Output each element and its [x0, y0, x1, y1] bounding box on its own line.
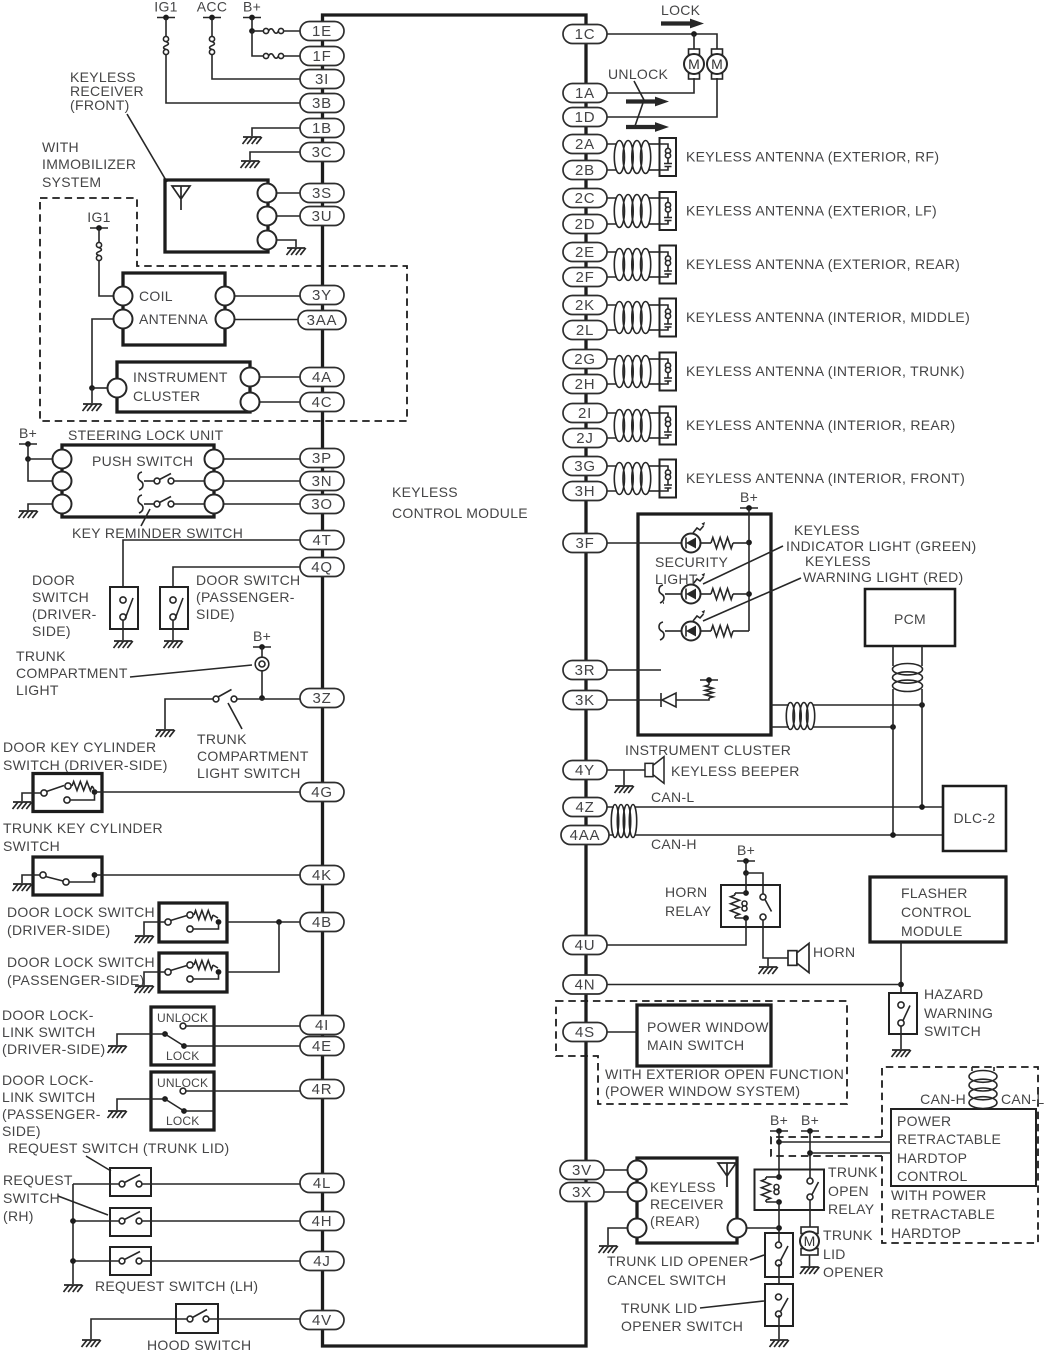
svg-text:CONTROL: CONTROL: [901, 904, 972, 920]
svg-text:COMPARTMENT: COMPARTMENT: [197, 748, 309, 764]
svg-text:4S: 4S: [575, 1024, 595, 1041]
svg-text:2K: 2K: [575, 297, 595, 314]
svg-text:IG1: IG1: [154, 0, 177, 15]
svg-text:HARDTOP: HARDTOP: [891, 1225, 961, 1241]
svg-text:RETRACTABLE: RETRACTABLE: [897, 1131, 1001, 1147]
svg-text:DOOR LOCK SWITCH: DOOR LOCK SWITCH: [7, 904, 155, 920]
svg-text:REQUEST SWITCH (LH): REQUEST SWITCH (LH): [95, 1278, 258, 1294]
svg-text:2G: 2G: [574, 351, 596, 368]
svg-text:STEERING LOCK UNIT: STEERING LOCK UNIT: [68, 427, 224, 443]
svg-text:DOOR LOCK-: DOOR LOCK-: [2, 1072, 94, 1088]
svg-text:M: M: [711, 56, 723, 72]
svg-text:(PASSENGER-: (PASSENGER-: [196, 589, 295, 605]
svg-text:SIDE): SIDE): [32, 623, 71, 639]
svg-text:B+: B+: [253, 628, 271, 644]
svg-text:4Q: 4Q: [311, 559, 333, 576]
svg-text:MAIN SWITCH: MAIN SWITCH: [647, 1037, 744, 1053]
svg-text:4T: 4T: [312, 532, 331, 549]
svg-text:WARNING: WARNING: [924, 1005, 993, 1021]
svg-text:B+: B+: [243, 0, 261, 15]
svg-text:B+: B+: [770, 1112, 788, 1128]
svg-text:CAN-L: CAN-L: [651, 789, 695, 805]
svg-text:OPEN: OPEN: [828, 1183, 869, 1199]
svg-text:CAN-H: CAN-H: [651, 836, 697, 852]
svg-text:LINK SWITCH: LINK SWITCH: [2, 1024, 96, 1040]
svg-text:KEYLESS: KEYLESS: [794, 522, 860, 538]
svg-text:MODULE: MODULE: [901, 923, 963, 939]
svg-text:KEYLESS ANTENNA (INTERIOR, FRO: KEYLESS ANTENNA (INTERIOR, FRONT): [686, 470, 965, 486]
svg-text:4R: 4R: [312, 1081, 333, 1098]
svg-text:KEYLESS ANTENNA (INTERIOR, TRU: KEYLESS ANTENNA (INTERIOR, TRUNK): [686, 363, 965, 379]
svg-text:RECEIVER: RECEIVER: [650, 1196, 724, 1212]
svg-text:POWER: POWER: [897, 1113, 951, 1129]
svg-text:RELAY: RELAY: [665, 903, 712, 919]
svg-text:(RH): (RH): [3, 1208, 34, 1224]
svg-text:OPENER: OPENER: [823, 1264, 884, 1280]
svg-text:4J: 4J: [313, 1253, 330, 1270]
svg-text:3Y: 3Y: [312, 287, 332, 304]
svg-text:WITH: WITH: [42, 139, 79, 155]
svg-text:SWITCH: SWITCH: [3, 1190, 60, 1206]
svg-text:COMPARTMENT: COMPARTMENT: [16, 665, 128, 681]
svg-text:(FRONT): (FRONT): [70, 97, 130, 113]
svg-text:LOCK: LOCK: [166, 1049, 199, 1063]
svg-text:(DRIVER-SIDE): (DRIVER-SIDE): [2, 1041, 105, 1057]
svg-text:HARDTOP: HARDTOP: [897, 1150, 967, 1166]
svg-text:3P: 3P: [312, 450, 332, 467]
svg-text:SIDE): SIDE): [196, 606, 235, 622]
svg-text:2C: 2C: [575, 190, 596, 207]
svg-text:ACC: ACC: [197, 0, 227, 15]
svg-text:TRUNK: TRUNK: [197, 731, 247, 747]
svg-text:2E: 2E: [575, 244, 595, 261]
svg-text:SECURITY: SECURITY: [655, 554, 729, 570]
svg-text:CLUSTER: CLUSTER: [133, 388, 200, 404]
svg-text:4E: 4E: [312, 1038, 332, 1055]
svg-text:REQUEST SWITCH (TRUNK LID): REQUEST SWITCH (TRUNK LID): [8, 1140, 229, 1156]
svg-text:4N: 4N: [575, 977, 596, 994]
svg-text:(REAR): (REAR): [650, 1213, 700, 1229]
svg-text:RETRACTABLE: RETRACTABLE: [891, 1206, 995, 1222]
svg-text:KEYLESS ANTENNA (EXTERIOR, LF): KEYLESS ANTENNA (EXTERIOR, LF): [686, 203, 937, 219]
svg-text:REQUEST: REQUEST: [3, 1172, 73, 1188]
svg-text:CAN-H: CAN-H: [920, 1091, 966, 1107]
svg-text:KEYLESS BEEPER: KEYLESS BEEPER: [671, 763, 800, 779]
svg-text:IG1: IG1: [87, 209, 110, 225]
svg-text:4H: 4H: [312, 1213, 333, 1230]
svg-text:1F: 1F: [312, 48, 331, 65]
svg-text:LOCK: LOCK: [661, 2, 701, 18]
svg-text:1D: 1D: [575, 109, 596, 126]
svg-text:3X: 3X: [572, 1184, 592, 1201]
svg-text:2A: 2A: [575, 136, 595, 153]
svg-text:4AA: 4AA: [570, 827, 601, 844]
svg-text:(PASSENGER-SIDE): (PASSENGER-SIDE): [7, 972, 145, 988]
svg-text:TRUNK LID OPENER: TRUNK LID OPENER: [607, 1253, 749, 1269]
svg-text:FLASHER: FLASHER: [901, 885, 968, 901]
svg-text:OPENER SWITCH: OPENER SWITCH: [621, 1318, 743, 1334]
svg-text:4I: 4I: [315, 1017, 329, 1034]
svg-text:ANTENNA: ANTENNA: [139, 311, 208, 327]
svg-text:3N: 3N: [312, 473, 333, 490]
svg-text:HORN: HORN: [665, 884, 707, 900]
svg-text:LIGHT SWITCH: LIGHT SWITCH: [197, 765, 301, 781]
svg-text:3S: 3S: [312, 185, 332, 202]
svg-text:WITH EXTERIOR OPEN FUNCTION: WITH EXTERIOR OPEN FUNCTION: [605, 1066, 844, 1082]
svg-text:B+: B+: [801, 1112, 819, 1128]
svg-text:LID: LID: [823, 1246, 846, 1262]
svg-text:4C: 4C: [312, 394, 333, 411]
svg-text:SWITCH: SWITCH: [3, 838, 60, 854]
svg-text:DOOR: DOOR: [32, 572, 75, 588]
svg-text:2B: 2B: [575, 162, 595, 179]
svg-text:CONTROL: CONTROL: [897, 1168, 968, 1184]
svg-text:3V: 3V: [572, 1162, 592, 1179]
svg-text:TRUNK KEY CYLINDER: TRUNK KEY CYLINDER: [3, 820, 163, 836]
svg-text:M: M: [688, 56, 700, 72]
svg-text:4K: 4K: [312, 867, 332, 884]
svg-text:CONTROL MODULE: CONTROL MODULE: [392, 505, 528, 521]
svg-text:SYSTEM: SYSTEM: [42, 174, 101, 190]
svg-text:KEYLESS ANTENNA (INTERIOR, REA: KEYLESS ANTENNA (INTERIOR, REAR): [686, 417, 955, 433]
svg-text:B+: B+: [737, 842, 755, 858]
svg-text:4U: 4U: [575, 937, 596, 954]
svg-text:B+: B+: [19, 425, 37, 441]
svg-text:M: M: [804, 1233, 816, 1249]
svg-text:2I: 2I: [578, 405, 592, 422]
svg-text:4G: 4G: [311, 784, 333, 801]
svg-text:2D: 2D: [575, 216, 596, 233]
svg-text:3I: 3I: [315, 71, 329, 88]
svg-text:KEYLESS ANTENNA (EXTERIOR, RF): KEYLESS ANTENNA (EXTERIOR, RF): [686, 149, 939, 165]
svg-text:2F: 2F: [575, 269, 594, 286]
svg-text:3R: 3R: [575, 662, 596, 679]
svg-text:(POWER WINDOW SYSTEM): (POWER WINDOW SYSTEM): [605, 1083, 800, 1099]
svg-text:4L: 4L: [313, 1175, 331, 1192]
svg-text:DOOR SWITCH: DOOR SWITCH: [196, 572, 300, 588]
svg-text:SWITCH (DRIVER-SIDE): SWITCH (DRIVER-SIDE): [3, 757, 168, 773]
svg-text:HAZARD: HAZARD: [924, 986, 983, 1002]
svg-text:LIGHT: LIGHT: [655, 571, 698, 587]
svg-text:KEYLESS ANTENNA (EXTERIOR, REA: KEYLESS ANTENNA (EXTERIOR, REAR): [686, 256, 960, 272]
svg-text:INDICATOR LIGHT (GREEN): INDICATOR LIGHT (GREEN): [786, 538, 976, 554]
svg-text:POWER WINDOW: POWER WINDOW: [647, 1019, 769, 1035]
svg-text:3Z: 3Z: [312, 690, 331, 707]
svg-text:WARNING LIGHT (RED): WARNING LIGHT (RED): [803, 569, 963, 585]
svg-text:DOOR KEY CYLINDER: DOOR KEY CYLINDER: [3, 739, 156, 755]
svg-text:3H: 3H: [575, 483, 596, 500]
svg-text:SWITCH: SWITCH: [924, 1023, 981, 1039]
svg-text:3K: 3K: [575, 692, 595, 709]
svg-text:1E: 1E: [312, 23, 332, 40]
svg-text:KEYLESS: KEYLESS: [392, 484, 458, 500]
svg-text:SWITCH: SWITCH: [32, 589, 89, 605]
svg-text:(DRIVER-: (DRIVER-: [32, 606, 97, 622]
svg-text:4Z: 4Z: [575, 799, 594, 816]
svg-text:1C: 1C: [575, 26, 596, 43]
svg-text:TRUNK: TRUNK: [828, 1164, 878, 1180]
svg-text:KEY REMINDER SWITCH: KEY REMINDER SWITCH: [72, 525, 243, 541]
svg-text:(DRIVER-SIDE): (DRIVER-SIDE): [7, 922, 110, 938]
svg-text:2J: 2J: [576, 430, 593, 447]
svg-text:B+: B+: [740, 489, 758, 505]
svg-text:CAN-L: CAN-L: [1001, 1091, 1045, 1107]
svg-text:PCM: PCM: [894, 611, 926, 627]
svg-text:SIDE): SIDE): [2, 1123, 41, 1139]
svg-text:3F: 3F: [575, 535, 594, 552]
svg-text:2H: 2H: [575, 376, 596, 393]
svg-text:PUSH SWITCH: PUSH SWITCH: [92, 453, 193, 469]
svg-text:3C: 3C: [312, 144, 333, 161]
svg-text:4V: 4V: [312, 1312, 332, 1329]
svg-text:WITH POWER: WITH POWER: [891, 1187, 987, 1203]
svg-text:RELAY: RELAY: [828, 1201, 875, 1217]
svg-text:4B: 4B: [312, 914, 332, 931]
svg-text:LOCK: LOCK: [166, 1114, 199, 1128]
svg-text:1A: 1A: [575, 85, 595, 102]
svg-text:TRUNK LID: TRUNK LID: [621, 1300, 698, 1316]
svg-text:DOOR LOCK-: DOOR LOCK-: [2, 1007, 94, 1023]
svg-text:3O: 3O: [311, 496, 333, 513]
svg-text:TRUNK: TRUNK: [16, 648, 66, 664]
svg-text:3U: 3U: [312, 208, 333, 225]
svg-text:DLC-2: DLC-2: [954, 810, 996, 826]
svg-text:(PASSENGER-: (PASSENGER-: [2, 1106, 101, 1122]
svg-text:DOOR LOCK SWITCH: DOOR LOCK SWITCH: [7, 954, 155, 970]
svg-text:3B: 3B: [312, 95, 332, 112]
svg-text:HORN: HORN: [813, 944, 855, 960]
svg-text:4Y: 4Y: [575, 762, 595, 779]
svg-text:COIL: COIL: [139, 288, 173, 304]
svg-text:4A: 4A: [312, 369, 332, 386]
svg-text:KEYLESS: KEYLESS: [805, 553, 871, 569]
svg-text:TRUNK: TRUNK: [823, 1227, 873, 1243]
svg-text:IMMOBILIZER: IMMOBILIZER: [42, 156, 136, 172]
svg-text:KEYLESS ANTENNA (INTERIOR, MID: KEYLESS ANTENNA (INTERIOR, MIDDLE): [686, 309, 970, 325]
svg-text:CANCEL SWITCH: CANCEL SWITCH: [607, 1272, 726, 1288]
svg-text:LINK SWITCH: LINK SWITCH: [2, 1089, 96, 1105]
svg-text:1B: 1B: [312, 120, 332, 137]
svg-text:HOOD SWITCH: HOOD SWITCH: [147, 1337, 251, 1353]
svg-text:UNLOCK: UNLOCK: [608, 66, 669, 82]
svg-text:3G: 3G: [574, 458, 596, 475]
svg-text:INSTRUMENT: INSTRUMENT: [133, 369, 228, 385]
svg-text:KEYLESS: KEYLESS: [650, 1179, 716, 1195]
svg-text:LIGHT: LIGHT: [16, 682, 59, 698]
svg-text:2L: 2L: [576, 322, 594, 339]
svg-text:3AA: 3AA: [307, 312, 338, 329]
svg-text:INSTRUMENT CLUSTER: INSTRUMENT CLUSTER: [625, 742, 791, 758]
